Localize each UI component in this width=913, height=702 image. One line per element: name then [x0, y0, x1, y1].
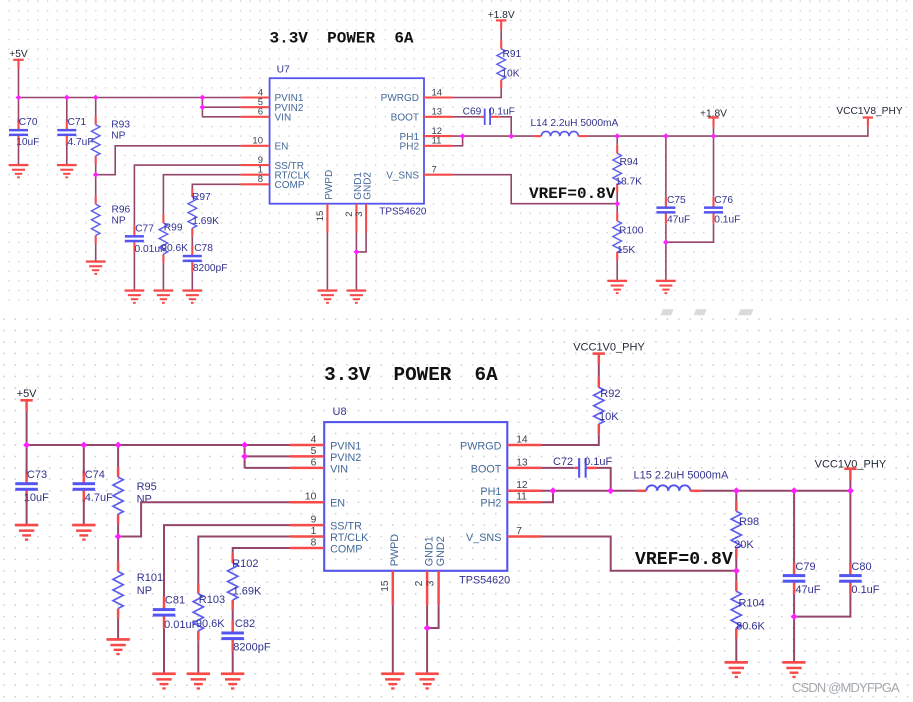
- capacitor C79 47uF: [783, 561, 821, 596]
- svg-text:R98: R98: [739, 516, 759, 528]
- pin 10 EN: [241, 145, 270, 147]
- capacitor C80 0.1uF: [839, 561, 880, 596]
- power +5V (U7 input): [9, 49, 28, 69]
- wire R-en upper lead: [117, 445, 119, 467]
- svg-text:14: 14: [432, 87, 443, 98]
- svg-text:10uF: 10uF: [24, 492, 49, 504]
- pin 1 RT/CLK: [241, 174, 270, 176]
- wire C-ss to ground: [163, 628, 165, 674]
- svg-text:C77: C77: [135, 223, 154, 234]
- pin 6 VIN: [241, 116, 270, 118]
- svg-text:C75: C75: [667, 195, 686, 206]
- wire FB node: [616, 193, 618, 204]
- junction PVIN2: [200, 104, 206, 110]
- svg-text:0.1uF: 0.1uF: [489, 106, 515, 117]
- ground below C79: [782, 661, 805, 678]
- svg-text:C71: C71: [68, 117, 87, 128]
- capacitor C73 10uF: [15, 469, 49, 504]
- wire FB upper lead: [616, 136, 618, 145]
- resistor R93 NP: [91, 116, 130, 164]
- svg-text:8: 8: [258, 174, 263, 185]
- wire FB node: [735, 558, 737, 571]
- inductor L15 2.2uH: [634, 470, 729, 491]
- svg-text:VREF=0.8V: VREF=0.8V: [635, 550, 733, 570]
- junction R-en top: [115, 442, 122, 449]
- junction C-out1 top: [663, 133, 669, 139]
- svg-text:12: 12: [516, 480, 528, 491]
- wire C-in1 top: [26, 445, 28, 474]
- capacitor C70 10uF: [9, 117, 39, 148]
- ground below R101: [107, 638, 130, 655]
- junction GND1/GND2: [354, 249, 360, 255]
- junction output power: [847, 487, 854, 494]
- pin 4 PVIN1: [241, 96, 270, 98]
- wire R-en2 to ground: [117, 619, 119, 640]
- svg-text:C81: C81: [165, 595, 185, 607]
- power VCC1V0_PHY (PWRGD pull-up): [573, 342, 645, 365]
- wire power to R-pg: [500, 30, 502, 41]
- junction PVIN drop: [241, 442, 248, 449]
- wire R-en to EN node: [117, 524, 119, 536]
- wire PH2 jog: [542, 491, 554, 502]
- svg-text:+1.8V: +1.8V: [488, 10, 515, 21]
- svg-text:3.3V POWER 6A: 3.3V POWER 6A: [270, 30, 414, 48]
- wire EN node down: [117, 537, 119, 562]
- svg-text:R101: R101: [137, 572, 163, 584]
- svg-text:C74: C74: [85, 469, 105, 481]
- wire +5V to input bus: [26, 411, 28, 445]
- svg-text:8: 8: [311, 537, 317, 548]
- svg-text:R92: R92: [600, 388, 620, 400]
- ground below R96: [86, 260, 106, 274]
- svg-text:NP: NP: [111, 130, 125, 141]
- ground below PWPD: [318, 289, 338, 303]
- resistor R103 90.6K: [193, 584, 225, 641]
- wire FB node down: [616, 204, 618, 213]
- svg-text:VCC1V8_PHY: VCC1V8_PHY: [836, 106, 902, 117]
- svg-text:10K: 10K: [501, 69, 519, 80]
- wire R-comp to C-comp: [232, 610, 234, 623]
- wire R-en to EN node: [95, 164, 97, 174]
- svg-text:8200pF: 8200pF: [233, 641, 271, 653]
- resistor R100 15K: [613, 212, 644, 260]
- power VCC1V8_PHY: [836, 106, 902, 127]
- junction FB top: [614, 133, 620, 139]
- junction +5V/C-in1: [16, 95, 22, 101]
- wire V_SNS to FB node: [542, 537, 737, 571]
- pin 6 VIN: [290, 467, 324, 470]
- svg-text:2: 2: [414, 580, 425, 586]
- svg-text:VIN: VIN: [330, 463, 348, 475]
- svg-text:VIN: VIN: [275, 113, 292, 124]
- junction output power: [711, 133, 717, 139]
- junction C-out bottoms: [791, 613, 798, 620]
- resistor R97 1.69K: [188, 189, 219, 237]
- svg-text:SS/TR: SS/TR: [330, 521, 362, 533]
- svg-text:3: 3: [354, 212, 365, 217]
- wire C-out1 lower: [793, 594, 795, 662]
- svg-text:4: 4: [311, 434, 317, 445]
- svg-text:EN: EN: [275, 141, 289, 152]
- ground below C78: [183, 289, 203, 303]
- wire C-in1 bottom: [18, 144, 20, 166]
- wire C-in2 top: [83, 445, 85, 474]
- svg-text:R95: R95: [137, 481, 157, 493]
- svg-text:C73: C73: [27, 469, 47, 481]
- wire C-out2 upper: [713, 136, 715, 197]
- ground below C81: [152, 672, 175, 689]
- inductor L14 2.2uH: [531, 118, 619, 136]
- svg-text:BOOT: BOOT: [391, 113, 419, 124]
- op-amp-style IC body U8 TPS54620: [324, 422, 507, 571]
- svg-text:47uF: 47uF: [667, 214, 690, 225]
- capacitor C77 0.01uF: [125, 223, 166, 254]
- wire to VIN pin: [245, 467, 290, 469]
- junction +5V/C-in1: [23, 442, 30, 449]
- resistor R94 18.7K: [613, 145, 642, 193]
- junction BOOT/PH: [607, 487, 614, 494]
- ground below C71: [57, 164, 77, 178]
- wire C-in2 bottom: [66, 144, 68, 166]
- svg-text:3: 3: [426, 580, 437, 586]
- svg-text:COMP: COMP: [330, 543, 362, 555]
- svg-text:L15 2.2uH 5000mA: L15 2.2uH 5000mA: [634, 470, 729, 482]
- pin 12 PH1: [424, 135, 453, 137]
- wire BOOT to cap: [453, 116, 481, 118]
- wire input bus (+5V rail): [27, 444, 290, 446]
- svg-text:20K: 20K: [734, 539, 754, 551]
- wire RT/CLK to resistor: [198, 537, 290, 584]
- capacitor C75 47uF: [656, 195, 690, 225]
- svg-text:RT/CLK: RT/CLK: [330, 532, 369, 544]
- svg-text:V_SNS: V_SNS: [386, 170, 419, 181]
- svg-text:R94: R94: [620, 157, 639, 168]
- junction EN node: [93, 172, 99, 178]
- svg-text:BOOT: BOOT: [471, 463, 502, 475]
- junction EN node: [115, 533, 122, 540]
- wire C-out1 upper: [793, 491, 795, 563]
- svg-text:7: 7: [432, 165, 437, 176]
- svg-text:4.7uF: 4.7uF: [68, 137, 94, 148]
- power +1.8V (PWRGD pull-up): [488, 10, 515, 30]
- resistor R101 NP: [113, 561, 163, 618]
- pin 9 SS/TR: [290, 524, 324, 527]
- svg-text:C78: C78: [194, 243, 213, 254]
- resistor R95 NP: [113, 467, 157, 524]
- junction C-in2: [80, 442, 87, 449]
- power +5V (U8 input): [17, 388, 38, 411]
- svg-text:8200pF: 8200pF: [193, 263, 228, 274]
- wire output power stub: [849, 480, 851, 491]
- wire PH1 to inductor: [453, 135, 533, 137]
- wire R-en2 to ground: [95, 244, 97, 262]
- svg-text:13: 13: [516, 457, 528, 468]
- resistor R102 1.69K: [228, 553, 262, 610]
- ground below C73: [15, 524, 38, 541]
- pin 10 EN: [290, 501, 324, 504]
- wire C-comp to ground: [191, 272, 193, 291]
- wire power to R-pg: [598, 365, 600, 378]
- wire rail to VCC1V8_PHY: [714, 127, 868, 136]
- svg-text:C80: C80: [851, 561, 871, 573]
- ground below R99: [154, 289, 174, 303]
- wire EN pin to divider: [96, 146, 241, 175]
- svg-text:3.3V POWER 6A: 3.3V POWER 6A: [324, 364, 498, 386]
- pin 14 PWRGD: [424, 96, 453, 98]
- pin 11 PH2: [507, 501, 541, 504]
- wire R-rt to ground: [162, 263, 164, 291]
- svg-text:C70: C70: [19, 117, 38, 128]
- svg-text:15K: 15K: [617, 245, 635, 256]
- wire to VIN pin: [202, 116, 240, 118]
- wire FB node down: [735, 571, 737, 581]
- svg-text:1: 1: [311, 526, 317, 537]
- wire GND2 jog: [356, 233, 366, 252]
- ground below GND1/GND2: [347, 289, 367, 303]
- svg-text:GND1: GND1: [423, 536, 435, 566]
- svg-text:PH2: PH2: [480, 498, 501, 510]
- wire R-pg to PWRGD pin: [453, 88, 501, 97]
- wire output rail: [701, 490, 851, 492]
- svg-text:+5V: +5V: [17, 388, 38, 400]
- ground below C82: [221, 672, 244, 689]
- pin 9 SS/TR: [241, 164, 270, 166]
- svg-text:V_SNS: V_SNS: [466, 532, 501, 544]
- pin 2 GND1: [426, 571, 429, 605]
- svg-text:VREF=0.8V: VREF=0.8V: [529, 185, 616, 203]
- svg-text:4.7uF: 4.7uF: [85, 492, 113, 504]
- pin 13 BOOT: [507, 467, 541, 470]
- wire PH1 to inductor: [542, 490, 637, 492]
- svg-text:R102: R102: [232, 558, 258, 570]
- pin 7 V_SNS: [507, 535, 541, 538]
- pin 11 PH2: [424, 145, 453, 147]
- ground below R100: [607, 280, 627, 294]
- svg-text:PWRGD: PWRGD: [460, 440, 502, 452]
- svg-text:C72: C72: [553, 456, 573, 468]
- svg-text:PH1: PH1: [480, 486, 501, 498]
- op-amp-style IC body U7 TPS54620: [270, 78, 424, 204]
- pin 2 GND1: [355, 204, 357, 233]
- capacitor C78 8200pF: [183, 243, 228, 274]
- wire GND1 to ground: [355, 233, 357, 291]
- wire output power stub: [713, 127, 715, 136]
- wire R-comp to C-comp: [191, 237, 193, 248]
- capacitor C72 0.1uF: [553, 456, 613, 478]
- junction PVIN2: [241, 453, 248, 460]
- wire BOOT to cap: [542, 467, 575, 469]
- wire C-out2 lower to rail: [666, 223, 714, 242]
- svg-text:R96: R96: [112, 204, 131, 215]
- wire C-ss to ground: [133, 252, 135, 291]
- wire C-in1 bottom: [26, 500, 28, 526]
- svg-text:PH2: PH2: [400, 141, 420, 152]
- pin 5 PVIN2: [290, 455, 324, 458]
- svg-text:C69: C69: [463, 106, 482, 117]
- ground below R104: [725, 661, 748, 678]
- wire PWPD to ground: [392, 605, 394, 674]
- svg-text:R93: R93: [111, 120, 130, 131]
- capacitor C71 4.7uF: [57, 117, 93, 148]
- wire V_SNS to FB node: [453, 175, 617, 204]
- wire BOOT cap to PH: [500, 117, 512, 136]
- pin 7 V_SNS: [424, 174, 453, 176]
- svg-text:11: 11: [516, 492, 527, 503]
- ground below C74: [72, 524, 95, 541]
- wire PWPD to ground: [326, 233, 328, 291]
- wire R-pg to PWRGD pin: [542, 434, 599, 445]
- ground below PWPD: [381, 672, 404, 689]
- wire EN node down: [95, 175, 97, 196]
- pin 8 COMP: [290, 547, 324, 550]
- svg-text:CSDN @MDYFPGA: CSDN @MDYFPGA: [792, 680, 900, 695]
- svg-text:10K: 10K: [599, 411, 619, 423]
- svg-text:R97: R97: [192, 192, 211, 203]
- wire bus to PVIN2/VIN: [201, 98, 203, 117]
- junction FB top: [733, 487, 740, 494]
- svg-text:14: 14: [516, 434, 528, 445]
- svg-text:18.7K: 18.7K: [615, 176, 642, 187]
- junction R-en top: [93, 95, 99, 101]
- svg-text:C82: C82: [235, 618, 255, 630]
- wire EN pin to divider: [118, 502, 290, 536]
- wire SS/TR to cap: [164, 525, 290, 596]
- svg-text:L14 2.2uH 5000mA: L14 2.2uH 5000mA: [531, 118, 619, 129]
- wire output rail: [587, 135, 713, 137]
- svg-text:15: 15: [380, 580, 391, 592]
- pin 8 COMP: [241, 183, 270, 185]
- junction FB node: [733, 567, 740, 574]
- resistor R96 NP: [91, 196, 130, 244]
- svg-text:TPS54620: TPS54620: [459, 575, 510, 587]
- svg-text:10: 10: [305, 492, 317, 503]
- pin 4 PVIN1: [290, 444, 324, 447]
- resistor R98 20K: [731, 501, 759, 558]
- svg-text:R103: R103: [199, 594, 225, 606]
- svg-text:PVIN1: PVIN1: [330, 440, 361, 452]
- svg-text:9: 9: [311, 515, 317, 526]
- resistor R99 90.6K: [159, 214, 188, 262]
- svg-text:NP: NP: [137, 494, 152, 506]
- junction PH2 join: [550, 487, 557, 494]
- wire FB upper lead: [735, 491, 737, 501]
- wire +5V to input bus: [18, 69, 20, 98]
- wire RT/CLK to resistor: [163, 175, 240, 215]
- wire COMP to compensation: [192, 184, 240, 188]
- wire GND1 to ground: [426, 605, 428, 674]
- wire input bus (+5V rail): [19, 97, 241, 99]
- junction PH2 join: [460, 133, 466, 139]
- wire R-fb2 to ground: [616, 261, 618, 281]
- svg-text:R91: R91: [503, 49, 522, 60]
- wire R-en upper lead: [95, 98, 97, 117]
- svg-text:47uF: 47uF: [795, 584, 820, 596]
- wire to PVIN2 pin: [202, 106, 240, 108]
- resistor R91 10K: [497, 40, 522, 88]
- power VCC1V0_PHY (output): [815, 459, 887, 480]
- svg-text:U7: U7: [277, 64, 290, 75]
- ground below C75: [656, 280, 676, 294]
- junction C-in2: [64, 95, 70, 101]
- watermark artifact shapes: [661, 309, 674, 315]
- wire C-in2 bottom: [83, 500, 85, 526]
- ground below C77: [125, 289, 145, 303]
- wire PH2 jog: [453, 136, 463, 146]
- junction C-out bottoms: [663, 239, 669, 245]
- svg-text:0.1uF: 0.1uF: [714, 214, 740, 225]
- svg-text:6: 6: [311, 457, 317, 468]
- power +1.8V (output): [700, 109, 727, 127]
- wire SS/TR to cap: [134, 165, 240, 225]
- svg-text:90.6K: 90.6K: [196, 618, 225, 630]
- wire bus to PVIN2/VIN: [244, 445, 246, 468]
- capacitor C76 0.1uF: [704, 195, 740, 225]
- svg-text:C76: C76: [714, 195, 733, 206]
- ground below GND1/GND2: [416, 672, 439, 689]
- capacitor C81 0.01uF: [153, 595, 199, 631]
- svg-text:13: 13: [432, 107, 443, 118]
- svg-text:GND2: GND2: [362, 172, 373, 200]
- svg-text:15: 15: [315, 211, 326, 222]
- svg-text:1.69K: 1.69K: [233, 586, 262, 598]
- wire C-comp to ground: [232, 652, 234, 674]
- junction PVIN drop: [200, 95, 206, 101]
- pin 1 RT/CLK: [290, 535, 324, 538]
- pin 3 GND2: [437, 571, 440, 605]
- svg-text:C79: C79: [795, 561, 815, 573]
- wire to PVIN2 pin: [245, 455, 290, 457]
- wire GND2 jog: [427, 605, 439, 628]
- wire C-out2 upper: [849, 491, 851, 563]
- svg-text:EN: EN: [330, 498, 345, 510]
- svg-text:0.1uF: 0.1uF: [851, 584, 879, 596]
- junction BOOT/PH: [508, 133, 514, 139]
- wire C-in1 top: [18, 98, 20, 122]
- svg-text:5: 5: [311, 446, 317, 457]
- svg-text:PWPD: PWPD: [389, 534, 401, 567]
- svg-text:R100: R100: [619, 226, 644, 237]
- wire COMP to compensation: [233, 548, 290, 553]
- wire C-in2 top: [66, 98, 68, 122]
- pin 12 PH1: [507, 490, 541, 493]
- svg-text:7: 7: [516, 526, 522, 537]
- svg-text:U8: U8: [333, 406, 347, 418]
- svg-text:PWPD: PWPD: [324, 170, 335, 200]
- svg-text:0.01uF: 0.01uF: [164, 619, 199, 631]
- wire R-fb2 to ground: [735, 638, 737, 662]
- svg-text:NP: NP: [137, 585, 152, 597]
- wire C-out1 lower: [665, 223, 667, 281]
- svg-text:PWRGD: PWRGD: [381, 93, 419, 104]
- svg-text:10uF: 10uF: [16, 137, 39, 148]
- wire C-out2 lower to rail: [794, 594, 850, 616]
- pin 15 PWPD: [326, 204, 328, 233]
- junction C-out1 top: [791, 487, 798, 494]
- svg-text:R99: R99: [164, 223, 183, 234]
- svg-text:R104: R104: [739, 598, 765, 610]
- resistor R92 10K: [594, 377, 621, 434]
- svg-text:0.1uF: 0.1uF: [584, 456, 612, 468]
- wire C-out1 upper: [665, 136, 667, 197]
- junction FB node: [614, 201, 620, 207]
- junction GND1/GND2: [424, 625, 431, 632]
- pin 3 GND2: [365, 204, 367, 233]
- ground below C70: [9, 164, 29, 178]
- pin 13 BOOT: [424, 116, 453, 118]
- wire BOOT cap to PH: [597, 468, 611, 491]
- pin 14 PWRGD: [507, 444, 541, 447]
- svg-text:80.6K: 80.6K: [736, 620, 765, 632]
